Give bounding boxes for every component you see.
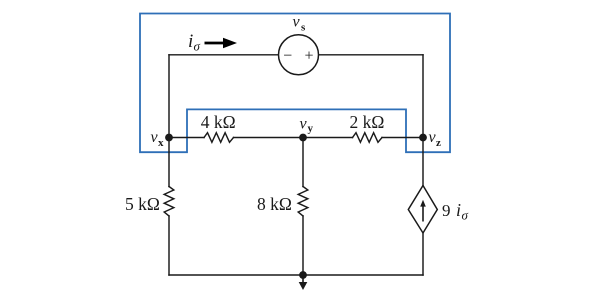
svg-text:v: v [300, 115, 308, 132]
svg-text:9: 9 [442, 201, 451, 220]
svg-text:σ: σ [462, 208, 469, 223]
svg-text:8 kΩ: 8 kΩ [257, 194, 292, 214]
svg-text:i: i [456, 200, 461, 220]
svg-text:s: s [301, 22, 306, 34]
svg-text:x: x [158, 137, 164, 149]
svg-text:5 kΩ: 5 kΩ [125, 194, 160, 214]
svg-text:i: i [188, 31, 193, 52]
svg-text:y: y [308, 122, 314, 134]
svg-text:+: + [304, 47, 313, 64]
svg-text:v: v [293, 14, 301, 31]
svg-text:−: − [283, 47, 292, 64]
svg-text:4 kΩ: 4 kΩ [201, 112, 236, 132]
svg-text:2 kΩ: 2 kΩ [350, 112, 385, 132]
svg-text:z: z [436, 137, 441, 149]
svg-text:σ: σ [194, 39, 201, 54]
